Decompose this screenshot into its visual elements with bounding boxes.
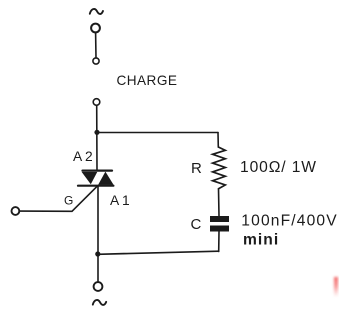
terminal (gate open circle) — [12, 207, 20, 215]
terminal (upper connector small circle) — [93, 58, 99, 64]
node (junction top, to snubber) — [94, 130, 99, 135]
svg-text:mini: mini — [243, 231, 279, 248]
node (junction bottom) — [95, 251, 100, 256]
capacitor C plate 2 — [210, 226, 229, 232]
svg-text:100nF/400V: 100nF/400V — [241, 213, 337, 230]
wire (triac MT1 down to junction and bottom terminal) — [97, 186, 99, 282]
wire (gate lead diagonal + horizontal) — [19, 186, 97, 212]
wire (right branch vertical, above resistor) — [217, 133, 219, 148]
red scan artifact at right edge — [334, 277, 338, 297]
svg-text:R: R — [191, 160, 202, 177]
terminal (lower connector small circle) — [93, 99, 100, 106]
svg-text:CHARGE: CHARGE — [117, 73, 178, 88]
AC source symbol ~ (top) — [90, 9, 103, 14]
triac TR left triangle (points down) — [82, 172, 98, 184]
capacitor C plate 1 — [210, 216, 229, 222]
svg-text:A1: A1 — [110, 193, 132, 208]
triac TR bottom bar (MT1 / gate side) — [78, 185, 113, 187]
terminal (top large open circle) — [91, 24, 100, 33]
svg-text:C: C — [191, 216, 202, 233]
triac TR right triangle (points up) — [98, 172, 114, 185]
wire (top horizontal to RC branch) — [97, 132, 218, 134]
wire (bottom horizontal back to main line) — [98, 251, 219, 254]
wire (top terminal to connector) — [95, 33, 97, 58]
terminal (bottom large open circle) — [94, 282, 103, 291]
triac TR top bar (MT2 side) — [83, 170, 113, 172]
wire (resistor to capacitor) — [218, 189, 221, 216]
wire (connector down to triac MT2, through node) — [96, 106, 98, 171]
AC source symbol ~ (bottom) — [93, 300, 106, 305]
resistor R (zigzag) — [213, 147, 226, 189]
svg-text:G: G — [64, 193, 73, 207]
wire (capacitor to bottom wire) — [218, 232, 220, 252]
svg-text:100Ω/ 1W: 100Ω/ 1W — [240, 159, 317, 176]
svg-text:A2: A2 — [73, 149, 95, 164]
